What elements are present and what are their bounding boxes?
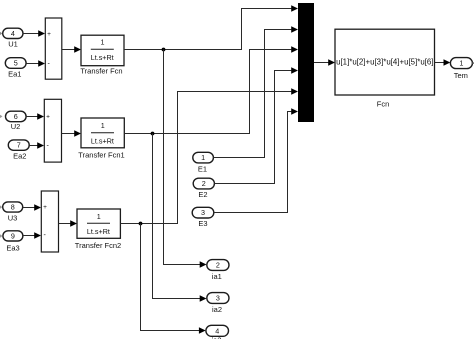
svg-text:8: 8 xyxy=(11,203,15,212)
junction on TF1 output (branch to ia2) xyxy=(151,132,155,136)
svg-text:U1: U1 xyxy=(8,40,18,49)
svg-text:+: + xyxy=(46,113,50,120)
wire branch down to outport 4 xyxy=(141,224,206,334)
svg-text:7: 7 xyxy=(17,141,21,150)
svg-text:3: 3 xyxy=(201,208,205,217)
svg-text:Transfer Fcn: Transfer Fcn xyxy=(80,66,122,75)
wire sum3 to Transfer Fcn2 xyxy=(59,220,78,227)
inport Ea2 (port 7) xyxy=(8,140,29,150)
svg-text:Lt.s+Rt: Lt.s+Rt xyxy=(91,137,114,146)
svg-text:1: 1 xyxy=(459,59,463,68)
svg-text:Transfer Fcn2: Transfer Fcn2 xyxy=(75,241,121,250)
inport U3 (port 8) xyxy=(3,202,23,212)
inport U1 (port 4) xyxy=(3,28,23,38)
svg-text:U2: U2 xyxy=(11,122,21,131)
svg-text:Fcn: Fcn xyxy=(377,99,390,108)
svg-text:9: 9 xyxy=(11,232,15,241)
svg-text:1: 1 xyxy=(101,121,105,130)
wire sum1 to Transfer Fcn xyxy=(62,46,81,53)
svg-text:2: 2 xyxy=(202,179,206,188)
wire sum2 to Transfer Fcn1 xyxy=(62,130,82,137)
svg-text:ia3: ia3 xyxy=(211,336,221,339)
svg-text:1: 1 xyxy=(201,153,205,162)
wire branch down to outport ia1 xyxy=(164,50,207,268)
svg-text:1: 1 xyxy=(97,212,101,221)
outport ia3 (port 4) xyxy=(206,325,229,336)
mux block (black bar) xyxy=(298,3,314,122)
wire E3 to mux input 6 xyxy=(214,108,298,212)
wire port6 to sum2 xyxy=(26,113,44,120)
clipped stub at left edge into port 4 xyxy=(0,32,2,35)
svg-text:1: 1 xyxy=(101,38,105,47)
inport E3 (port 3) xyxy=(192,207,214,218)
sum block S3 xyxy=(41,191,58,252)
clipped stub at left edge into port 6 xyxy=(0,115,3,118)
wire branch down to outport ia2 xyxy=(153,134,207,302)
svg-text:Tem: Tem xyxy=(454,71,468,80)
wire TF1 output up to mux input 3 xyxy=(124,46,298,133)
svg-text:+: + xyxy=(47,31,51,38)
outport ia2 (port 3) xyxy=(207,293,229,304)
svg-text:Transfer Fcn1: Transfer Fcn1 xyxy=(78,151,124,160)
svg-text:ia2: ia2 xyxy=(212,305,222,314)
wire Fcn to outport Tem xyxy=(435,59,451,66)
inport Ea3 (port 9) xyxy=(3,231,23,241)
clipped stub at left edge into port 9 xyxy=(0,234,3,237)
transfer function TF2 1/(Lt.s+Rt) xyxy=(77,209,120,238)
transfer function TF1 1/(Lt.s+Rt) xyxy=(81,118,124,148)
transfer function TF 1/(Lt.s+Rt) xyxy=(81,35,124,65)
wire port4 to sum1 xyxy=(23,30,45,37)
svg-text:E1: E1 xyxy=(198,165,207,174)
outport ia1 (port 2) xyxy=(207,260,229,271)
svg-text:6: 6 xyxy=(14,112,18,121)
wire mux output to Fcn xyxy=(314,59,335,66)
sum block S2 xyxy=(44,99,61,162)
junction on TF2 output (branch to outport 4) xyxy=(139,222,143,226)
svg-text:ia1: ia1 xyxy=(212,272,222,281)
svg-text:2: 2 xyxy=(216,261,220,270)
inport U2 (port 6) xyxy=(6,111,27,122)
Fcn block u[1]*u[2]+u[3]*u[4]+u[5]*u[6] xyxy=(335,29,435,95)
svg-text:Lt.s+Rt: Lt.s+Rt xyxy=(91,53,114,62)
inport E1 (port 1) xyxy=(193,152,214,163)
wire TF2 output up to mux input 5 xyxy=(120,88,298,223)
wire port9 to sum3 xyxy=(23,232,41,239)
sum block S1 xyxy=(45,18,62,79)
clipped output stub at right edge xyxy=(472,62,474,64)
outport Tem (port 1) xyxy=(450,58,472,69)
svg-text:+: + xyxy=(43,204,47,211)
wire port7 to sum2 xyxy=(29,142,44,149)
svg-text:Ea2: Ea2 xyxy=(13,152,26,161)
svg-text:E2: E2 xyxy=(198,190,207,199)
svg-text:3: 3 xyxy=(216,294,220,303)
svg-text:u[1]*u[2]+u[3]*u[4]+u[5]*u[6]: u[1]*u[2]+u[3]*u[4]+u[5]*u[6] xyxy=(336,58,433,67)
wire port8 to sum3 xyxy=(23,204,41,211)
wire TF output up to mux input 1 xyxy=(124,5,298,49)
svg-text:5: 5 xyxy=(14,59,18,68)
svg-text:Ea1: Ea1 xyxy=(8,70,21,79)
svg-text:4: 4 xyxy=(215,326,219,335)
svg-text:E3: E3 xyxy=(198,219,207,228)
inport Ea1 (port 5) xyxy=(5,58,26,69)
wire port5 to sum1 xyxy=(26,60,45,67)
svg-text:U3: U3 xyxy=(8,214,18,223)
clipped stub at left edge into port 8 xyxy=(0,205,2,208)
svg-text:4: 4 xyxy=(11,29,15,38)
inport E2 (port 2) xyxy=(193,178,214,189)
junction on TF output (branch to ia1) xyxy=(162,48,166,52)
svg-text:Ea3: Ea3 xyxy=(6,243,19,252)
svg-text:Lt.s+Rt: Lt.s+Rt xyxy=(87,227,110,236)
wire E1 to mux input 2 xyxy=(213,26,298,157)
wire E2 to mux input 4 xyxy=(214,67,298,183)
